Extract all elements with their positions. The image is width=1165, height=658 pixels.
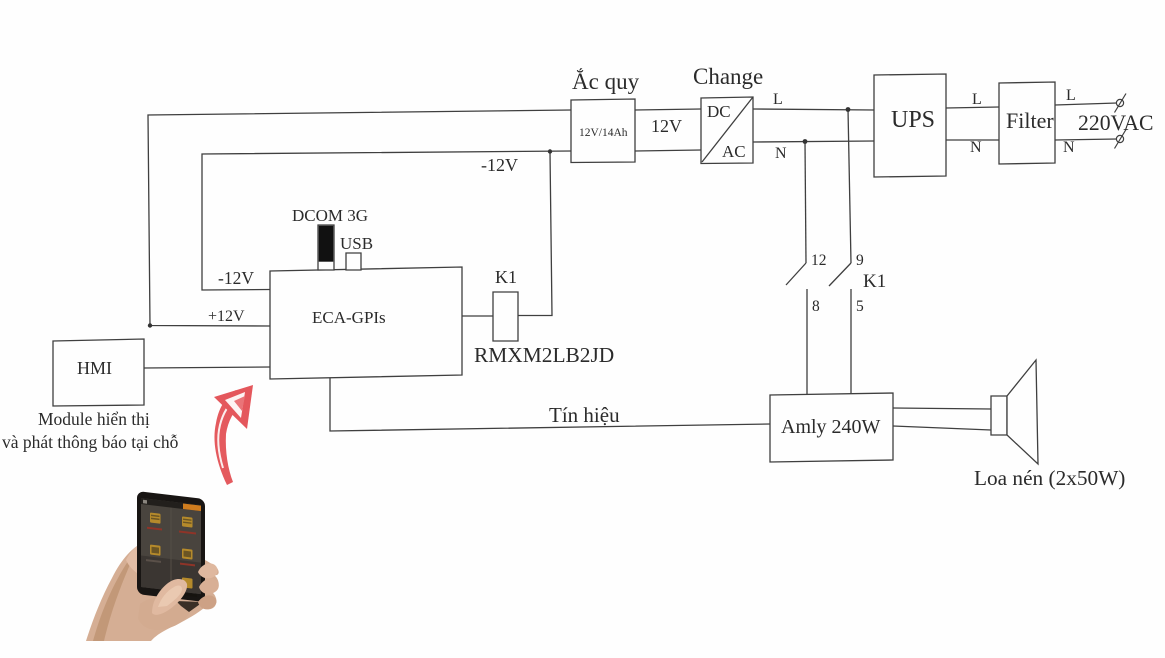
svg-text:Loa nén (2x50W): Loa nén (2x50W) <box>974 466 1125 490</box>
red caption bars <box>147 527 196 567</box>
svg-text:N: N <box>775 145 787 162</box>
svg-text:Change: Change <box>693 64 763 89</box>
svg-text:N: N <box>1063 139 1075 156</box>
ECA-GPIs box <box>270 267 462 379</box>
svg-text:5: 5 <box>856 298 864 315</box>
wire battery to change bottom <box>635 150 701 151</box>
svg-text:12V: 12V <box>651 116 682 136</box>
svg-text:Tín hiệu: Tín hiệu <box>549 403 620 427</box>
svg-text:và phát thông báo tại chỗ: và phát thông báo tại chỗ <box>2 432 179 452</box>
red arrow pointing to ECA-GPIs <box>214 385 253 485</box>
svg-text:L: L <box>773 91 783 108</box>
DCOM modem outline <box>318 225 334 270</box>
icons <box>150 513 193 589</box>
hand holding phone photo <box>86 491 219 641</box>
junction dot battery -12V <box>548 149 552 153</box>
svg-text:Ắc quy: Ắc quy <box>572 68 640 94</box>
HMI box <box>53 339 144 406</box>
finger across bottom-left of phone <box>138 598 189 630</box>
screen <box>141 498 201 594</box>
switch blade 12 <box>786 263 806 285</box>
Amly box <box>770 393 893 462</box>
Filter box <box>999 82 1055 164</box>
wire K1 contact 12-8 upper <box>805 142 806 263</box>
wire HMI to ECA <box>144 367 270 368</box>
junction dot N wire <box>803 139 808 144</box>
svg-text:DC: DC <box>707 102 731 121</box>
screen lower darker <box>141 555 201 594</box>
change box DC/AC <box>701 97 753 164</box>
terminal L circle <box>1115 94 1127 149</box>
svg-text:AC: AC <box>722 142 746 161</box>
wire change to UPS L <box>753 109 874 110</box>
switch blade 9 <box>829 263 851 286</box>
svg-text:HMI: HMI <box>77 358 112 378</box>
wire contact 5 lower <box>850 289 852 394</box>
svg-text:Module hiển thị: Module hiển thị <box>38 409 150 429</box>
wire change to UPS N <box>753 141 874 142</box>
DCOM modem black fill <box>319 226 334 262</box>
column divider <box>171 501 172 590</box>
svg-text:L: L <box>1066 87 1076 104</box>
wire ECA to K1 <box>462 315 493 317</box>
dark gap under phone bottom <box>176 601 203 612</box>
svg-text:K1: K1 <box>863 271 886 292</box>
svg-text:USB: USB <box>340 234 373 253</box>
wire UPS to Filter N <box>946 139 999 141</box>
junction dot L wire <box>846 107 851 112</box>
wire Amly to speaker lower <box>893 426 991 430</box>
top bar <box>141 498 201 511</box>
hand base palm <box>86 542 219 641</box>
svg-text:8: 8 <box>812 298 820 315</box>
USB connector rect <box>346 253 361 270</box>
junction dot +12V corner <box>148 323 152 327</box>
svg-text:12: 12 <box>811 252 827 269</box>
fingertip 3 <box>198 595 216 609</box>
svg-text:-12V: -12V <box>481 155 518 175</box>
svg-text:UPS: UPS <box>891 107 935 133</box>
palm left edge shading <box>93 549 138 641</box>
svg-text:Amly 240W: Amly 240W <box>781 416 881 438</box>
svg-text:N: N <box>970 139 982 156</box>
wire battery to change top <box>635 109 701 110</box>
svg-text:Filter: Filter <box>1006 108 1054 133</box>
svg-text:L: L <box>972 91 982 108</box>
svg-text:K1: K1 <box>495 267 517 287</box>
svg-text:ECA-GPIs: ECA-GPIs <box>312 308 386 327</box>
phone body <box>137 491 205 602</box>
K1 relay box <box>493 292 518 341</box>
svg-text:12V/14Ah: 12V/14Ah <box>579 127 628 139</box>
wire contact 8 lower <box>806 289 808 394</box>
thumb across screen <box>152 579 187 615</box>
diagonal in change box <box>702 97 753 162</box>
wire Amly to speaker upper <box>893 408 991 409</box>
svg-text:-12V: -12V <box>218 268 254 288</box>
wire K1 right vertical to -12V line <box>518 152 552 316</box>
wire inner top -12V loop <box>202 151 571 290</box>
svg-text:RMXM2LB2JD: RMXM2LB2JD <box>474 343 614 367</box>
svg-text:+12V: +12V <box>208 308 245 325</box>
svg-text:9: 9 <box>856 252 864 269</box>
knuckle highlight left of phone <box>126 545 140 575</box>
wire Tin hieu <box>330 378 770 431</box>
speaker horn <box>1007 360 1038 464</box>
terminal N circle <box>1116 135 1123 142</box>
wire Filter to terminal L <box>1055 103 1117 105</box>
wire outer top +12V loop <box>148 110 571 326</box>
UPS box <box>874 74 946 177</box>
svg-text:220VAC: 220VAC <box>1078 111 1154 135</box>
fingertip 2 <box>199 579 219 594</box>
svg-text:DCOM 3G: DCOM 3G <box>292 206 368 225</box>
speaker rect <box>991 396 1007 435</box>
fingertip 1 <box>198 563 217 578</box>
wire UPS to Filter L <box>946 107 999 108</box>
thumb highlight <box>158 586 182 607</box>
wire K1 contact 9-5 upper <box>848 109 851 263</box>
wire Filter to terminal N <box>1055 139 1117 140</box>
battery box Ac quy <box>571 99 635 163</box>
